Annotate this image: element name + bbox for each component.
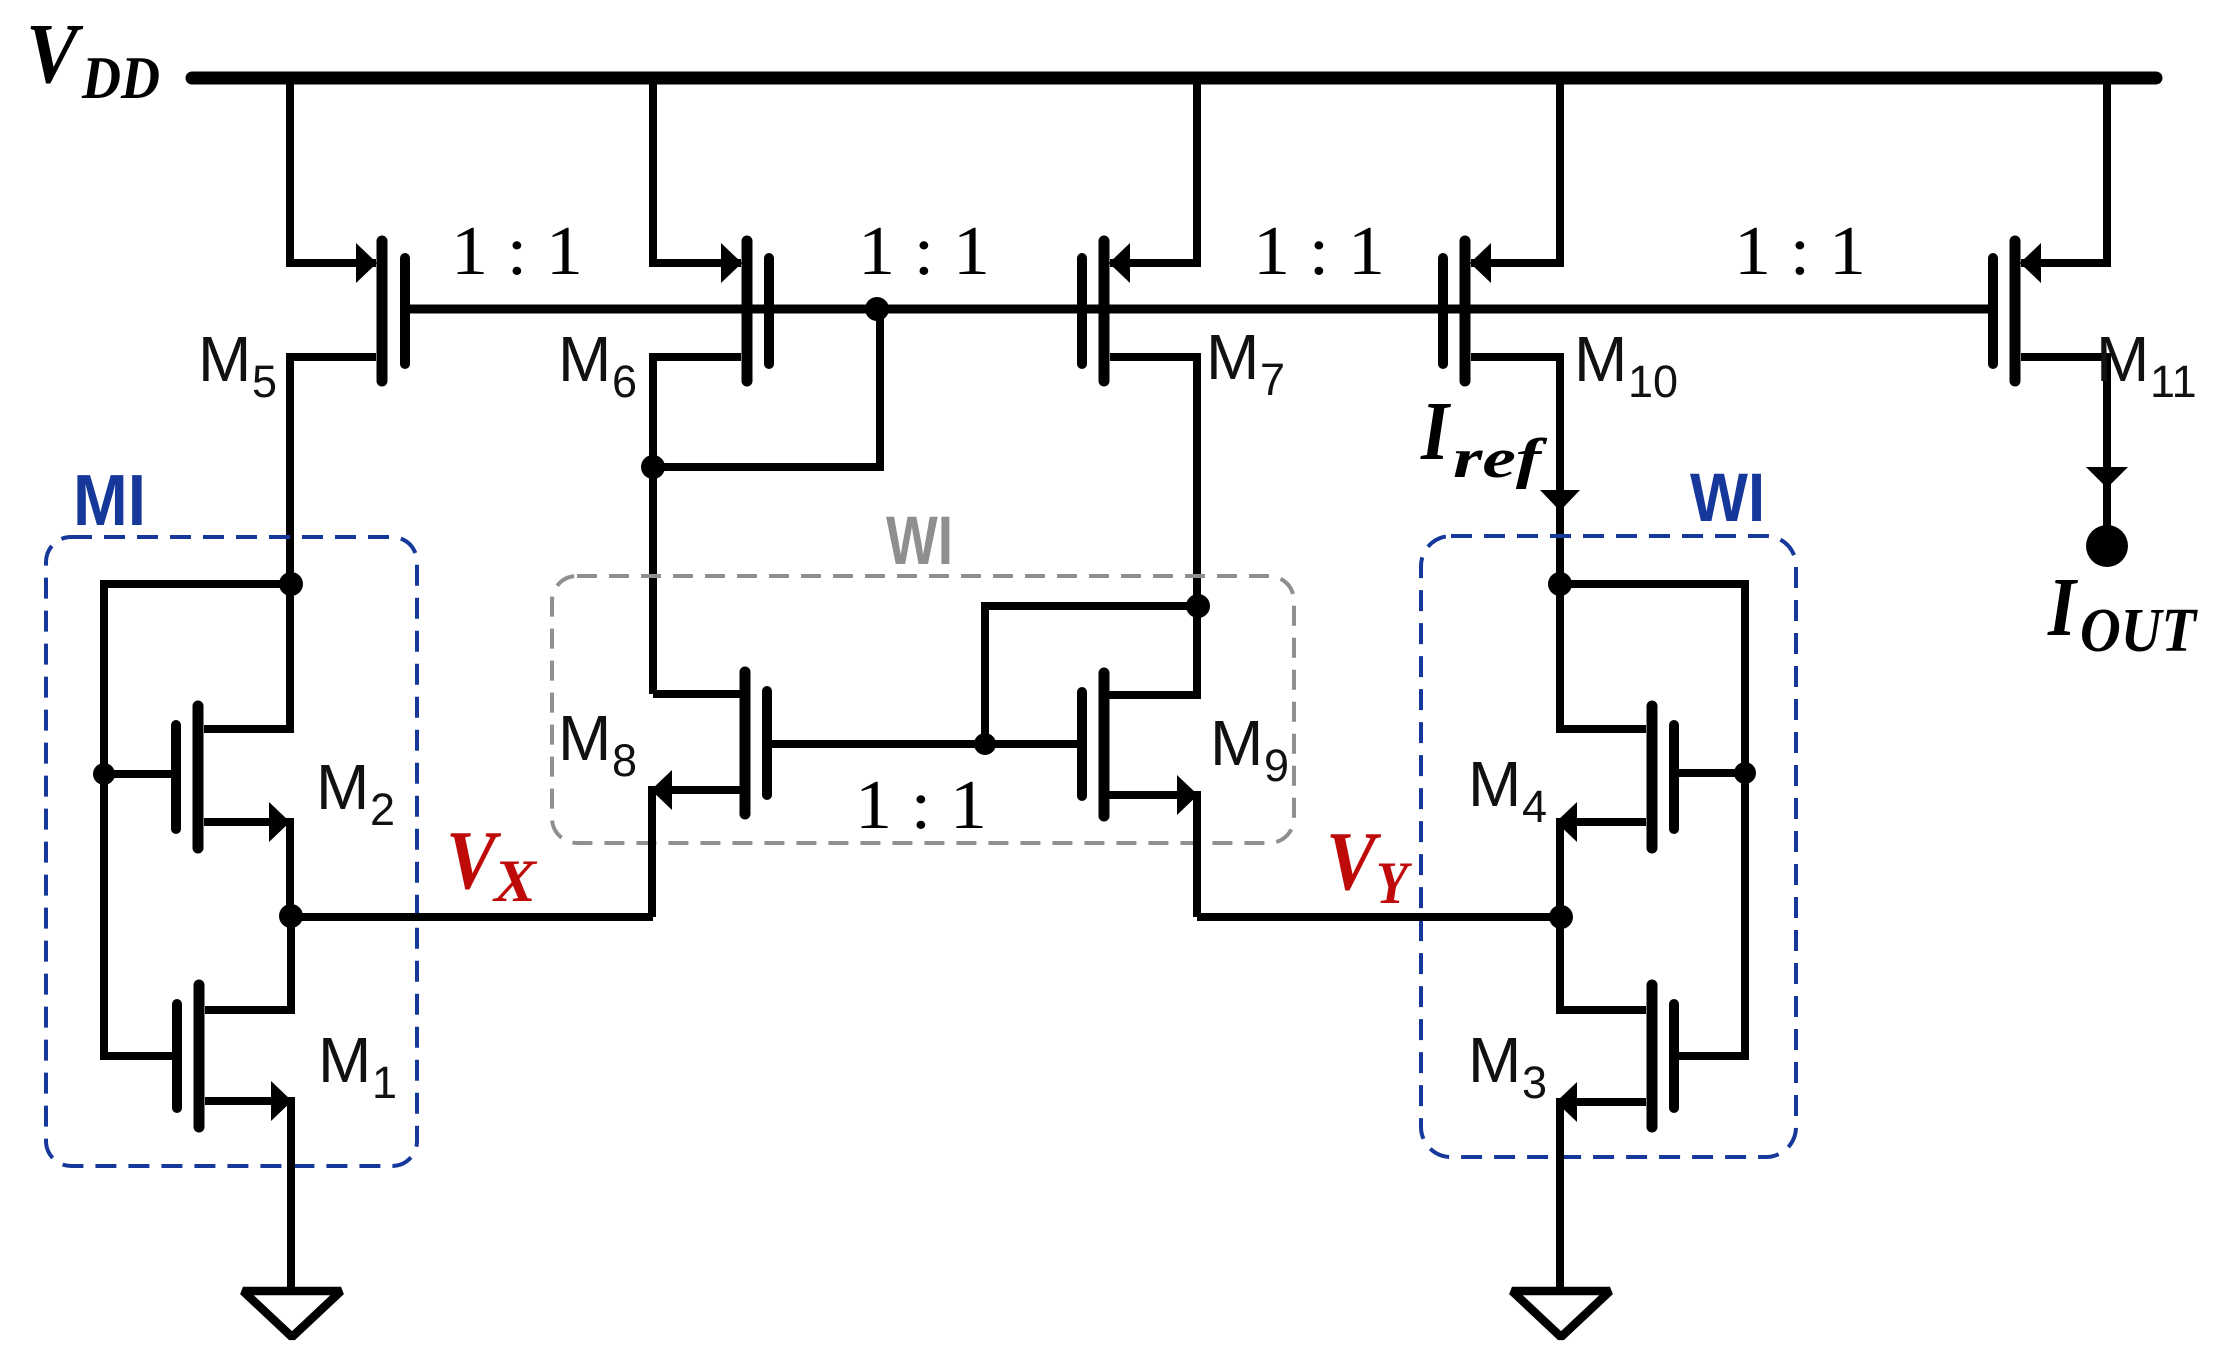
svg-text:9: 9	[1264, 740, 1289, 791]
transistor M5 (PMOS)	[356, 241, 405, 381]
wire M9 drain	[1104, 610, 1197, 695]
svg-text:M: M	[2096, 323, 2149, 395]
wire VDD drop to M6 source	[653, 80, 741, 263]
ground (right)	[1512, 1291, 1610, 1337]
svg-text:3: 3	[1522, 1057, 1547, 1108]
svg-text:2: 2	[370, 784, 395, 835]
current arrow Iref	[1540, 490, 1580, 511]
svg-text:11: 11	[2150, 356, 2197, 407]
svg-text:I: I	[2047, 561, 2079, 654]
terminal IOUT	[2086, 525, 2128, 567]
wire M3 source to ground	[1560, 1102, 1646, 1291]
svg-text:1 : 1: 1 : 1	[1253, 213, 1385, 290]
transistor M11 (PMOS)	[1993, 241, 2041, 381]
svg-text:1: 1	[372, 1057, 397, 1108]
svg-text:M: M	[316, 751, 369, 823]
wire M5 drain to M2/M1 gates branch	[104, 584, 291, 1056]
transistor M1 label	[318, 1024, 397, 1108]
transistor M9 (NMOS)	[1082, 673, 1198, 816]
svg-text:M: M	[1468, 748, 1521, 820]
current arrow IOUT	[2086, 467, 2128, 488]
node IOUT label	[2047, 561, 2198, 665]
VDD power rail	[192, 72, 2156, 85]
node VY wire	[1197, 913, 1561, 921]
wire VDD drop to M5 source	[290, 80, 376, 263]
junction M2 gate tap	[93, 763, 115, 785]
svg-text:WI: WI	[1690, 459, 1765, 536]
transistor M5 label	[198, 323, 277, 407]
junction on gate rail	[865, 297, 889, 321]
svg-text:M: M	[1206, 321, 1259, 393]
svg-text:M: M	[318, 1024, 371, 1096]
svg-text:8: 8	[612, 735, 637, 786]
svg-text:ref: ref	[1453, 428, 1548, 490]
wire common PMOS gate rail	[405, 305, 1993, 314]
svg-text:4: 4	[1522, 781, 1547, 832]
transistor M11 label	[2096, 323, 2197, 407]
wire M5 drain	[290, 357, 376, 584]
transistor M7 (PMOS)	[1082, 241, 1130, 381]
svg-text:M: M	[1574, 323, 1627, 395]
transistor M2 label	[316, 751, 395, 835]
wire M4 gate tap	[1674, 769, 1745, 777]
svg-text:M: M	[1210, 707, 1263, 779]
transistor M4 (NMOS)	[1556, 706, 1674, 848]
transistor M9 label	[1210, 707, 1289, 791]
svg-text:1 : 1: 1 : 1	[451, 213, 583, 290]
transistor M2 (NMOS)	[176, 706, 290, 848]
node VDD label	[26, 5, 160, 111]
node VY label	[1326, 815, 1413, 916]
junction M4 gate tap	[1734, 762, 1756, 784]
wire VDD drop to M11 source	[2021, 80, 2107, 263]
svg-text:V: V	[1326, 815, 1381, 908]
transistor M4 label	[1468, 748, 1547, 832]
wire M7 drain	[1110, 357, 1197, 695]
junction Iref node	[1548, 572, 1572, 596]
wire VDD drop to M7 source	[1110, 80, 1197, 263]
junction gate rail M8/M9	[974, 733, 996, 755]
svg-text:X: X	[492, 848, 538, 914]
svg-text:M: M	[1468, 1024, 1521, 1096]
svg-text:WI: WI	[886, 502, 953, 579]
wire M10 drain / Iref branch	[1471, 357, 1560, 584]
box MI block (blue dashed)	[46, 537, 417, 1166]
node VX label	[446, 814, 538, 914]
wire M3 drain to VY	[1560, 921, 1646, 1010]
transistor M7 label	[1206, 321, 1285, 405]
wire M9 diode connection	[985, 606, 1198, 744]
junction M5 drain / branch	[279, 572, 303, 596]
transistor M3 (NMOS)	[1556, 985, 1674, 1127]
svg-text:Y: Y	[1376, 850, 1413, 916]
transistor M8 label	[558, 702, 637, 786]
wire M2 source to VX	[204, 822, 290, 916]
svg-text:OUT: OUT	[2080, 597, 2198, 665]
wire M1 drain to VX	[205, 920, 291, 1010]
transistor M6 label	[558, 323, 637, 407]
node Iref label	[1420, 385, 1548, 490]
wire M1 source to ground	[205, 1101, 291, 1291]
transistor M8 (NMOS)	[651, 672, 767, 814]
transistor M10 (PMOS)	[1443, 241, 1491, 381]
ground (left)	[243, 1291, 341, 1337]
svg-text:1 : 1: 1 : 1	[855, 767, 987, 844]
wire M9 source to VY	[1104, 795, 1197, 917]
wire M10 drain branch to M4/M3 gates	[1560, 584, 1745, 1056]
svg-text:M: M	[558, 323, 611, 395]
junction VY	[1549, 905, 1573, 929]
wire M4 source to VY	[1560, 822, 1646, 917]
svg-text:10: 10	[1628, 356, 1678, 407]
wire M2 drain	[204, 588, 290, 729]
wire M6 drain	[653, 357, 741, 694]
wire M8 drain	[653, 690, 745, 698]
svg-text:M: M	[198, 323, 251, 395]
transistor M3 label	[1468, 1024, 1547, 1108]
box WI block right (blue dashed)	[1421, 536, 1796, 1157]
box WI block middle (gray dashed)	[552, 576, 1294, 843]
svg-text:DD: DD	[81, 45, 160, 111]
wire M8/M9 common gate rail	[767, 740, 1083, 748]
wire M8 source to VX	[652, 790, 745, 917]
svg-text:I: I	[1420, 385, 1452, 478]
transistor M6 (PMOS)	[721, 241, 769, 381]
svg-text:7: 7	[1260, 354, 1285, 405]
junction VX	[279, 904, 303, 928]
svg-text:MI: MI	[73, 461, 146, 541]
junction on M6 drain column	[641, 455, 665, 479]
transistor M1 (NMOS)	[177, 985, 292, 1127]
node VX wire	[291, 913, 653, 921]
wire VDD drop to M10 source	[1471, 80, 1560, 263]
svg-text:M: M	[558, 702, 611, 774]
wire M2 gate tap	[104, 770, 176, 778]
wire M6 diode connection to gate rail	[653, 309, 880, 467]
wire M4 drain	[1560, 588, 1646, 729]
wire M11 drain to output	[2021, 357, 2107, 527]
svg-text:1 : 1: 1 : 1	[1734, 213, 1866, 290]
junction M7 drain / M9 drain	[1186, 594, 1210, 618]
svg-text:1 : 1: 1 : 1	[858, 213, 990, 290]
svg-text:5: 5	[252, 356, 277, 407]
svg-text:V: V	[26, 5, 84, 101]
transistor M10 label	[1574, 323, 1678, 407]
svg-text:6: 6	[612, 356, 637, 407]
